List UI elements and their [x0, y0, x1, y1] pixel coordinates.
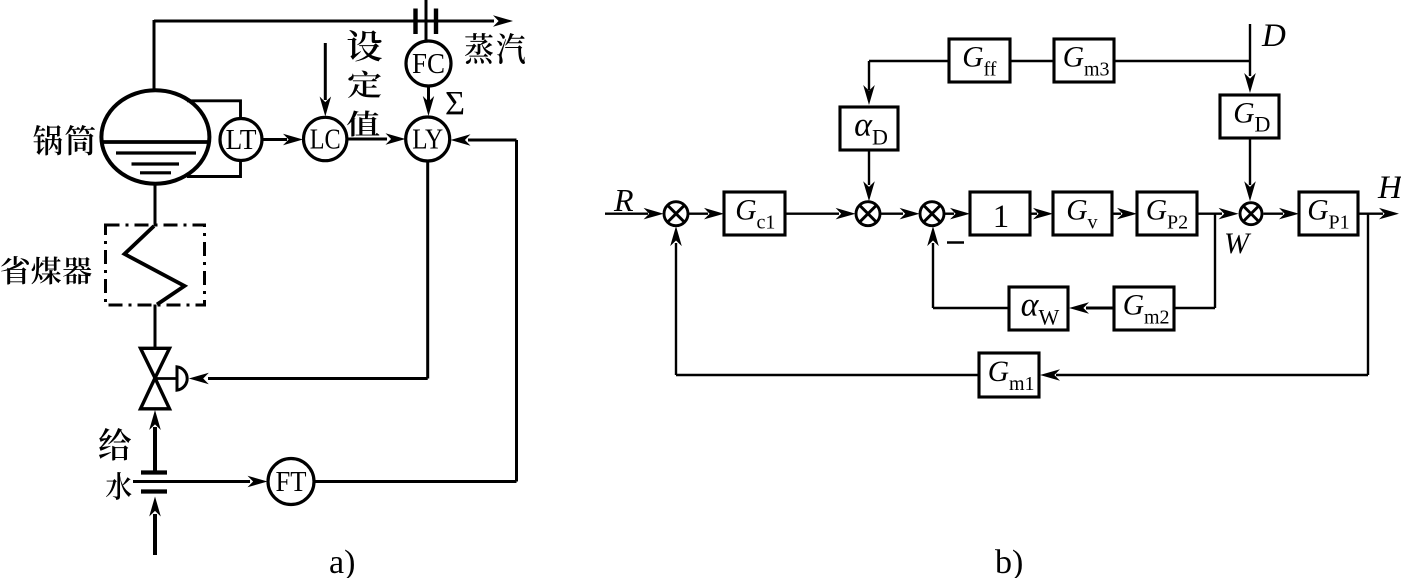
svg-text:m2: m2 — [1144, 306, 1170, 328]
svg-text:G: G — [1307, 194, 1328, 226]
svg-text:Σ: Σ — [445, 85, 465, 122]
svg-text:FT: FT — [276, 466, 307, 498]
svg-text:LT: LT — [226, 124, 257, 156]
svg-text:R: R — [613, 182, 634, 218]
svg-text:D: D — [872, 125, 888, 150]
svg-text:G: G — [1146, 194, 1167, 226]
svg-text:W: W — [1039, 305, 1060, 330]
svg-text:G: G — [1233, 97, 1254, 129]
svg-text:v: v — [1088, 211, 1098, 233]
svg-text:D: D — [1261, 18, 1286, 54]
svg-text:G: G — [1066, 194, 1087, 226]
svg-text:m1: m1 — [1009, 373, 1035, 395]
svg-text:G: G — [1063, 41, 1084, 73]
svg-text:1: 1 — [993, 199, 1010, 235]
svg-text:c1: c1 — [757, 211, 776, 233]
svg-text:LC: LC — [310, 124, 341, 156]
svg-text:b): b) — [995, 544, 1023, 578]
svg-text:G: G — [1123, 289, 1144, 321]
svg-text:ff: ff — [984, 58, 997, 80]
svg-text:W: W — [1224, 227, 1252, 260]
svg-text:α: α — [854, 107, 873, 144]
svg-text:H: H — [1377, 170, 1401, 206]
svg-text:G: G — [988, 356, 1009, 388]
svg-text:m3: m3 — [1084, 58, 1110, 80]
svg-text:P1: P1 — [1329, 211, 1350, 233]
svg-text:FC: FC — [412, 48, 445, 80]
svg-text:G: G — [962, 41, 983, 73]
svg-text:LY: LY — [412, 124, 443, 156]
svg-text:G: G — [735, 194, 756, 226]
svg-text:P2: P2 — [1167, 211, 1188, 233]
svg-text:α: α — [1021, 287, 1040, 324]
svg-text:D: D — [1255, 111, 1271, 136]
svg-text:a): a) — [329, 544, 355, 578]
